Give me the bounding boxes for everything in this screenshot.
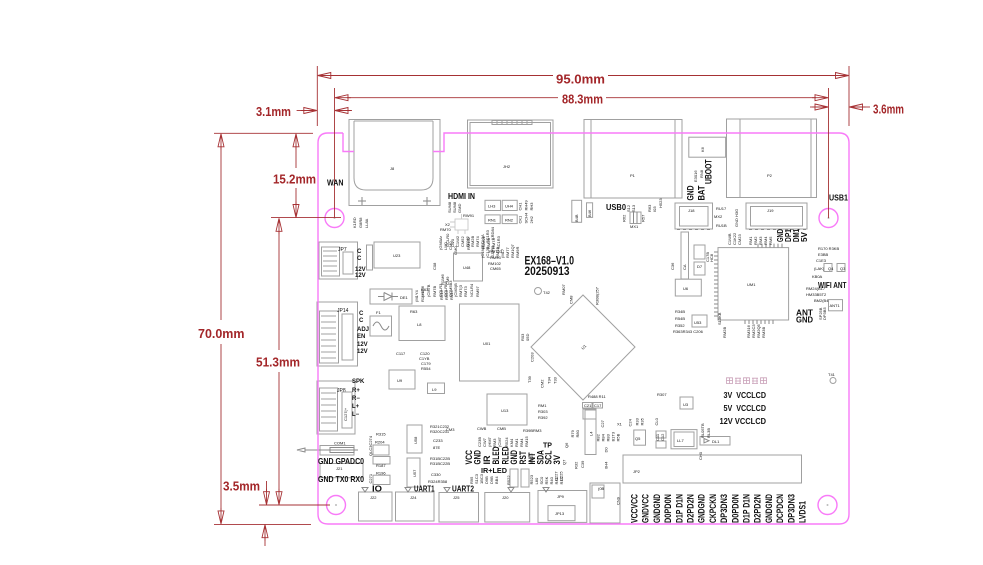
svg-text:U13: U13 <box>501 408 509 413</box>
svg-text:12V: 12V <box>357 349 368 355</box>
svg-text:COM1: COM1 <box>334 441 346 446</box>
svg-text:X1: X1 <box>617 422 623 427</box>
svg-text:5V: 5V <box>800 231 809 242</box>
svg-text:12V VCCLCD: 12V VCCLCD <box>720 416 767 426</box>
svg-text:DP3B5: DP3B5 <box>822 307 827 320</box>
svg-text:G8R8: G8R8 <box>358 217 363 228</box>
svg-text:R363R343 C206: R363R343 C206 <box>673 329 704 334</box>
svg-text:CM23: CM23 <box>737 234 742 245</box>
svg-text:GMD: GMD <box>457 204 462 213</box>
svg-text:J18: J18 <box>688 208 695 213</box>
svg-text:C127(+: C127(+ <box>343 407 348 421</box>
svg-text:R−: R− <box>352 396 360 402</box>
svg-text:C: C <box>357 256 362 262</box>
svg-text:QLC3C274: QLC3C274 <box>368 435 373 456</box>
svg-text:HC8: HC8 <box>709 253 714 262</box>
svg-text:UH4: UH4 <box>505 204 514 209</box>
svg-text:RM9R: RM9R <box>515 247 520 258</box>
svg-text:RM1: RM1 <box>538 403 547 408</box>
svg-text:RU1B: RU1B <box>716 223 727 228</box>
svg-text:U3: U3 <box>683 402 689 407</box>
svg-text:L+: L+ <box>352 404 360 410</box>
svg-text:UART2: UART2 <box>452 484 474 494</box>
svg-text:U1: U1 <box>580 343 588 351</box>
svg-text:TP: TP <box>543 443 552 450</box>
svg-text:RN2: RN2 <box>505 218 514 223</box>
svg-text:15.2mm: 15.2mm <box>273 172 316 187</box>
svg-text:R63: R63 <box>410 309 418 314</box>
svg-text:D0PD0N: D0PD0N <box>663 494 674 523</box>
svg-text:JP9: JP9 <box>557 494 565 499</box>
svg-text:LVDS1: LVDS1 <box>798 500 809 523</box>
svg-text:GND TX0 RX0: GND TX0 RX0 <box>318 474 364 484</box>
svg-text:E3BB: E3BB <box>818 252 829 257</box>
svg-text:Q6: Q6 <box>564 442 569 448</box>
svg-text:K6: K6 <box>700 146 705 152</box>
svg-text:CL0: CL0 <box>654 417 659 425</box>
svg-text:C36: C36 <box>670 262 675 270</box>
svg-text:USB1: USB1 <box>829 193 848 203</box>
svg-text:3V VCCLCD: 3V VCCLCD <box>724 390 767 400</box>
svg-text:GNDGND: GNDGND <box>697 494 708 523</box>
svg-text:12V: 12V <box>357 342 368 348</box>
svg-text:GNDVCC: GNDVCC <box>641 494 652 523</box>
svg-text:UBOOT: UBOOT <box>704 159 715 184</box>
svg-text:CM65: CM65 <box>490 266 501 271</box>
svg-text:RW91: RW91 <box>463 213 475 218</box>
svg-text:RMT03: RMT03 <box>489 249 503 254</box>
svg-text:Q5: Q5 <box>635 436 641 441</box>
svg-text:U57: U57 <box>412 469 417 477</box>
svg-text:L4: L4 <box>589 431 594 436</box>
svg-text:C225: C225 <box>559 471 564 481</box>
svg-text:R54B: R54B <box>675 316 685 321</box>
svg-text:RN8: RN8 <box>699 169 704 178</box>
svg-text:U53: U53 <box>694 320 702 325</box>
svg-text:(+LR6: (+LR6 <box>420 285 425 297</box>
svg-text:C203: C203 <box>530 352 535 362</box>
svg-text:MX1: MX1 <box>630 224 639 229</box>
svg-text:C1E3: C1E3 <box>816 258 827 263</box>
svg-text:DE1: DE1 <box>400 295 409 300</box>
svg-text:RM73: RM73 <box>463 286 468 297</box>
svg-text:S13: S13 <box>631 204 636 212</box>
svg-text:R187: R187 <box>376 463 386 468</box>
svg-text:GND GPADC0: GND GPADC0 <box>318 456 364 466</box>
svg-text:D2PD2N: D2PD2N <box>753 494 764 523</box>
svg-text:GND: GND <box>686 185 697 200</box>
svg-text:(M1Y4: (M1Y4 <box>414 289 419 302</box>
svg-text:2H2: 2H2 <box>529 215 534 223</box>
svg-text:B46: B46 <box>587 209 592 217</box>
svg-text:R57: R57 <box>641 214 646 222</box>
svg-text:ANT1: ANT1 <box>830 303 841 308</box>
svg-text:CKPCKN: CKPCKN <box>708 494 719 523</box>
svg-text:R5B: R5B <box>616 433 621 441</box>
svg-text:CM8: CM8 <box>569 295 574 304</box>
svg-text:HM33B5T2: HM33B5T2 <box>806 292 827 297</box>
svg-text:L9: L9 <box>432 387 437 392</box>
svg-text:C12: C12 <box>660 433 665 441</box>
svg-text:T39: T39 <box>527 375 532 383</box>
svg-text:R170 R3KB: R170 R3KB <box>818 246 839 251</box>
svg-text:5V VCCLCD: 5V VCCLCD <box>724 403 767 413</box>
svg-text:T41: T41 <box>828 372 836 377</box>
svg-text:R324R358: R324R358 <box>428 479 448 484</box>
svg-text:R80: R80 <box>575 429 580 437</box>
svg-text:C08: C08 <box>432 262 437 270</box>
svg-text:U58: U58 <box>413 436 418 444</box>
svg-text:B4B: B4B <box>574 214 579 222</box>
svg-text:CWB: CWB <box>477 426 487 431</box>
svg-text:H523: H523 <box>658 198 663 208</box>
svg-text:RH49: RH49 <box>524 199 529 210</box>
svg-text:CM2: CM2 <box>540 379 545 388</box>
svg-text:D1P D1N: D1P D1N <box>674 494 685 523</box>
svg-text:GND: GND <box>796 314 813 324</box>
svg-text:U9: U9 <box>397 378 403 383</box>
svg-text:J20: J20 <box>502 495 509 500</box>
svg-text:R522: R522 <box>506 475 511 485</box>
svg-text:C117: C117 <box>396 351 406 356</box>
svg-text:GNDGND: GNDGND <box>652 494 663 523</box>
svg-text:J25: J25 <box>453 495 460 500</box>
svg-text:RM93: RM93 <box>490 255 501 260</box>
svg-text:D0: D0 <box>604 447 609 453</box>
svg-text:(CM7: (CM7 <box>497 436 502 447</box>
svg-text:SCH4: SCH4 <box>524 212 529 223</box>
svg-text:R488 R11: R488 R11 <box>588 394 606 399</box>
svg-text:NCLR4: NCLR4 <box>469 283 474 297</box>
svg-text:JP2: JP2 <box>633 469 641 474</box>
svg-text:RM3B: RM3B <box>761 327 766 338</box>
svg-text:RM7B: RM7B <box>432 286 437 297</box>
svg-text:SC1R3: SC1R3 <box>496 235 501 249</box>
svg-text:3.6mm: 3.6mm <box>873 102 904 117</box>
svg-text:95.0mm: 95.0mm <box>556 72 605 87</box>
svg-text:70.0mm: 70.0mm <box>198 326 245 341</box>
svg-text:R392: R392 <box>538 415 548 420</box>
svg-text:RM24(B17: RM24(B17 <box>806 286 826 291</box>
svg-text:BM2(B4: BM2(B4 <box>814 298 829 303</box>
svg-text:BB4: BB4 <box>494 476 499 484</box>
svg-text:DCPDCN: DCPDCN <box>775 494 786 523</box>
svg-text:T33: T33 <box>553 376 558 384</box>
svg-text:R196: R196 <box>376 471 386 476</box>
svg-text:R31BC22B: R31BC22B <box>430 461 450 466</box>
svg-text:CM3: CM3 <box>446 427 455 432</box>
svg-text:C: C <box>359 311 364 317</box>
svg-text:IR+LED: IR+LED <box>481 468 507 475</box>
svg-text:U48: U48 <box>463 265 471 270</box>
svg-text:I03: I03 <box>652 206 657 212</box>
svg-text:RN1: RN1 <box>488 218 497 223</box>
svg-text:(0B: (0B <box>598 486 605 491</box>
svg-text:CH1: CH1 <box>518 202 523 211</box>
svg-text:D7: D7 <box>697 264 703 269</box>
svg-text:F1: F1 <box>376 310 381 315</box>
svg-text:88.3mm: 88.3mm <box>562 92 603 107</box>
svg-text:R32: R32 <box>574 461 579 469</box>
svg-text:MX2: MX2 <box>714 214 723 219</box>
svg-text:J21: J21 <box>336 466 343 471</box>
svg-text:DP3DN3: DP3DN3 <box>719 494 730 523</box>
svg-text:L8: L8 <box>417 322 422 327</box>
svg-text:U01: U01 <box>483 341 491 346</box>
svg-text:(LAK): (LAK) <box>814 266 825 271</box>
svg-text:S13KB: S13KB <box>717 312 722 325</box>
svg-text:JP14: JP14 <box>337 308 349 314</box>
svg-text:C: C <box>359 318 364 324</box>
svg-text:RL3B: RL3B <box>706 428 711 438</box>
svg-text:87E: 87E <box>433 445 440 450</box>
svg-text:D1P D1N: D1P D1N <box>742 494 753 523</box>
svg-text:R34B: R34B <box>675 309 685 314</box>
svg-text:GND H3G: GND H3G <box>734 209 739 227</box>
svg-text:RM07: RM07 <box>561 284 566 295</box>
svg-text:RM15: RM15 <box>524 436 529 447</box>
svg-text:R35: R35 <box>640 417 645 425</box>
svg-text:J22: J22 <box>370 495 377 500</box>
svg-text:BAT: BAT <box>697 185 708 200</box>
svg-text:KRD84: KRD84 <box>490 226 495 240</box>
svg-text:RL05TB: RL05TB <box>700 423 705 438</box>
svg-text:R315: R315 <box>376 432 386 437</box>
svg-text:R62: R62 <box>622 214 627 222</box>
svg-text:JP13: JP13 <box>555 511 565 516</box>
svg-text:R352: R352 <box>675 323 685 328</box>
svg-text:D0PD0N: D0PD0N <box>730 494 741 523</box>
svg-text:C27: C27 <box>600 419 605 427</box>
svg-text:HDMI IN: HDMI IN <box>448 191 475 201</box>
svg-text:C24: C24 <box>628 418 633 426</box>
svg-text:UM1: UM1 <box>747 282 756 287</box>
svg-text:UART1: UART1 <box>414 484 435 494</box>
svg-text:USB0: USB0 <box>606 202 626 212</box>
svg-text:C21: C21 <box>584 403 592 408</box>
svg-text:J19: J19 <box>767 208 774 213</box>
svg-text:0H4: 0H4 <box>604 461 609 469</box>
svg-text:DP3DN3: DP3DN3 <box>786 494 797 523</box>
svg-text:LL8A: LL8A <box>364 218 369 228</box>
svg-text:P1: P1 <box>630 173 636 178</box>
svg-text:DL1: DL1 <box>712 439 720 444</box>
svg-text:C39: C39 <box>580 460 585 468</box>
svg-text:C330: C330 <box>431 472 441 477</box>
svg-text:T42: T42 <box>543 290 551 295</box>
svg-text:RM70: RM70 <box>440 227 451 232</box>
svg-text:Q4: Q4 <box>828 266 834 271</box>
svg-text:C233: C233 <box>433 438 443 443</box>
svg-text:12V: 12V <box>355 273 366 279</box>
svg-text:R204: R204 <box>375 440 385 445</box>
svg-text:JP8: JP8 <box>337 388 346 394</box>
svg-text:P2: P2 <box>767 173 773 178</box>
svg-text:CA: CA <box>682 264 687 270</box>
svg-text:RU17: RU17 <box>716 206 727 211</box>
svg-text:EN: EN <box>357 334 365 340</box>
svg-text:C271: C271 <box>368 473 373 483</box>
svg-text:R554: R554 <box>421 366 431 371</box>
svg-text:KB0A: KB0A <box>812 274 823 279</box>
svg-text:C17: C17 <box>594 403 602 408</box>
svg-text:D2PD2N: D2PD2N <box>686 494 697 523</box>
svg-text:51.3mm: 51.3mm <box>256 355 300 370</box>
svg-text:CN9: CN9 <box>616 496 621 505</box>
svg-text:ADJ: ADJ <box>357 327 369 333</box>
svg-text:LL7: LL7 <box>677 438 684 443</box>
svg-text:C: C <box>357 249 362 255</box>
svg-text:WAN: WAN <box>327 178 344 188</box>
svg-text:U23: U23 <box>393 253 401 258</box>
svg-text:E3016: E3016 <box>693 170 698 182</box>
svg-text:RM5: RM5 <box>768 236 773 245</box>
svg-text:L−: L− <box>352 412 360 418</box>
svg-text:R303: R303 <box>538 409 548 414</box>
svg-text:RH3: RH3 <box>529 202 534 211</box>
svg-text:CH0: CH0 <box>698 451 703 460</box>
svg-text:R322: R322 <box>529 453 534 463</box>
svg-text:Q3: Q3 <box>840 266 846 271</box>
svg-text:JH2: JH2 <box>503 164 511 169</box>
svg-text:3.5mm: 3.5mm <box>223 479 260 494</box>
svg-text:CMB: CMB <box>497 426 506 431</box>
svg-text:20250913: 20250913 <box>525 264 570 278</box>
svg-text:J24: J24 <box>410 495 417 500</box>
svg-text:RM2B: RM2B <box>722 327 727 338</box>
svg-text:RM97: RM97 <box>475 286 480 297</box>
svg-text:3.1mm: 3.1mm <box>256 104 291 119</box>
svg-text:R307: R307 <box>657 392 667 397</box>
svg-text:R39BRM3: R39BRM3 <box>523 428 542 433</box>
svg-text:CK1: CK1 <box>518 215 523 224</box>
svg-text:GNDGND: GNDGND <box>764 494 775 523</box>
svg-text:T34: T34 <box>547 376 552 384</box>
svg-text:LH3: LH3 <box>488 204 496 209</box>
svg-text:Q7: Q7 <box>562 459 567 465</box>
svg-text:SPK: SPK <box>352 379 365 385</box>
svg-text:VCCVCC: VCCVCC <box>630 494 641 523</box>
svg-text:K1RD: K1RD <box>352 217 357 228</box>
svg-text:U6: U6 <box>683 286 689 291</box>
svg-text:J8: J8 <box>390 166 395 171</box>
svg-text:R+: R+ <box>352 388 360 394</box>
svg-text:05D: 05D <box>525 334 530 341</box>
svg-text:R30B(257: R30B(257 <box>595 286 600 305</box>
svg-text:(CM7B: (CM7B <box>426 284 431 297</box>
